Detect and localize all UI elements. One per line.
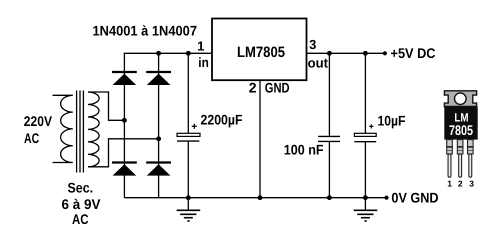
svg-text:2200µF: 2200µF bbox=[201, 111, 243, 127]
label C1 polarity + bbox=[192, 124, 197, 129]
transformer T1 core bbox=[77, 91, 84, 173]
node junction secondary top / left branch bbox=[122, 118, 127, 123]
diode D2 top-right bbox=[146, 72, 171, 85]
transformer T1 secondary winding bbox=[88, 92, 99, 167]
node junction ground rail / C3 bbox=[363, 195, 368, 200]
wire C3 bottom bbox=[364, 142, 366, 198]
svg-text:+5V DC: +5V DC bbox=[391, 45, 436, 61]
svg-text:3: 3 bbox=[469, 179, 474, 189]
capacitor C1 positive plate bbox=[177, 133, 200, 136]
svg-text:3: 3 bbox=[309, 37, 316, 52]
node junction top rail / C1 bbox=[186, 51, 191, 56]
svg-text:2: 2 bbox=[458, 179, 463, 189]
wire ground rail bbox=[124, 197, 386, 199]
wire C2 bottom bbox=[328, 141, 330, 197]
svg-text:1N4001 à 1N4007: 1N4001 à 1N4007 bbox=[93, 23, 198, 39]
wire C1 bottom bbox=[187, 141, 189, 198]
LM7805 package body bbox=[444, 107, 477, 140]
transformer T1 primary winding bbox=[53, 95, 73, 162]
regulator U1 LM7805 box bbox=[212, 19, 307, 81]
svg-text:0V GND: 0V GND bbox=[391, 189, 438, 205]
wire C3 top bbox=[364, 53, 366, 133]
svg-text:1: 1 bbox=[447, 179, 452, 189]
node junction top rail / right branch bbox=[156, 51, 161, 56]
ground symbol left bbox=[177, 198, 201, 221]
LM7805 package leg 1 bbox=[447, 140, 453, 178]
svg-text:Sec.: Sec. bbox=[68, 180, 94, 196]
node junction secondary bottom / right branch bbox=[156, 136, 161, 141]
capacitor C2 top plate bbox=[318, 135, 340, 137]
svg-text:AC: AC bbox=[24, 130, 39, 146]
terminal +5V DC bbox=[383, 51, 387, 55]
svg-text:220V: 220V bbox=[24, 113, 53, 129]
capacitor C3 positive plate bbox=[354, 133, 376, 136]
LM7805 package leg 3 bbox=[467, 140, 473, 178]
node junction output / C2 bbox=[327, 51, 332, 56]
svg-text:in: in bbox=[198, 55, 209, 70]
svg-text:AC: AC bbox=[72, 211, 89, 227]
wire C1 top bbox=[187, 53, 189, 133]
ground symbol right bbox=[354, 198, 378, 221]
wire top rail to regulator input bbox=[124, 52, 212, 54]
capacitor C2 bottom plate bbox=[318, 140, 340, 142]
LM7805 package mounting hole bbox=[455, 93, 467, 105]
diode D1 top-left bbox=[112, 72, 137, 85]
LM7805 package mounting tab bbox=[444, 91, 476, 107]
node junction ground rail / C1 bbox=[186, 195, 191, 200]
diode D3 bottom-left bbox=[112, 163, 137, 176]
svg-text:out: out bbox=[308, 56, 329, 71]
diode D4 bottom-right bbox=[146, 163, 171, 176]
svg-text:6 à 9V: 6 à 9V bbox=[62, 196, 102, 212]
svg-text:1: 1 bbox=[197, 39, 204, 54]
capacitor C3 negative plate bbox=[354, 141, 376, 143]
svg-text:GND: GND bbox=[265, 80, 290, 96]
svg-text:7805: 7805 bbox=[449, 122, 473, 138]
node junction output / C3 bbox=[363, 51, 368, 56]
wire C2 top bbox=[328, 53, 330, 136]
wire pin 2 to ground rail bbox=[259, 80, 261, 198]
wire secondary bottom lead to bridge bbox=[88, 139, 159, 167]
wire output rail from pin 3 bbox=[307, 52, 385, 54]
wire secondary top lead to bridge bbox=[88, 92, 124, 120]
capacitor C1 negative plate bbox=[177, 140, 199, 142]
svg-text:2: 2 bbox=[249, 80, 257, 96]
node junction ground rail / C2 bbox=[327, 195, 332, 200]
svg-text:10µF: 10µF bbox=[378, 113, 406, 129]
svg-text:LM7805: LM7805 bbox=[237, 44, 285, 61]
terminal 0V GND bbox=[384, 196, 388, 200]
LM7805 package leg 2 bbox=[457, 140, 463, 178]
wire bridge right branch bbox=[158, 53, 160, 197]
wire bridge left branch bbox=[123, 53, 125, 197]
label C3 polarity + bbox=[369, 124, 373, 128]
svg-text:100 nF: 100 nF bbox=[284, 141, 324, 157]
node junction ground rail / pin 2 bbox=[258, 195, 263, 200]
